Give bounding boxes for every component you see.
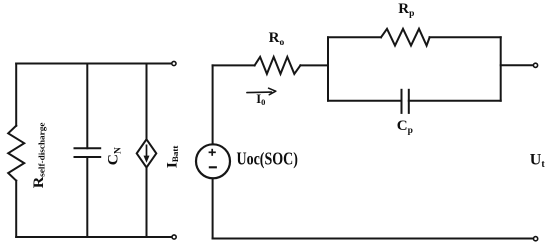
svg-text:Uoc(SOC): Uoc(SOC) [237, 150, 298, 169]
